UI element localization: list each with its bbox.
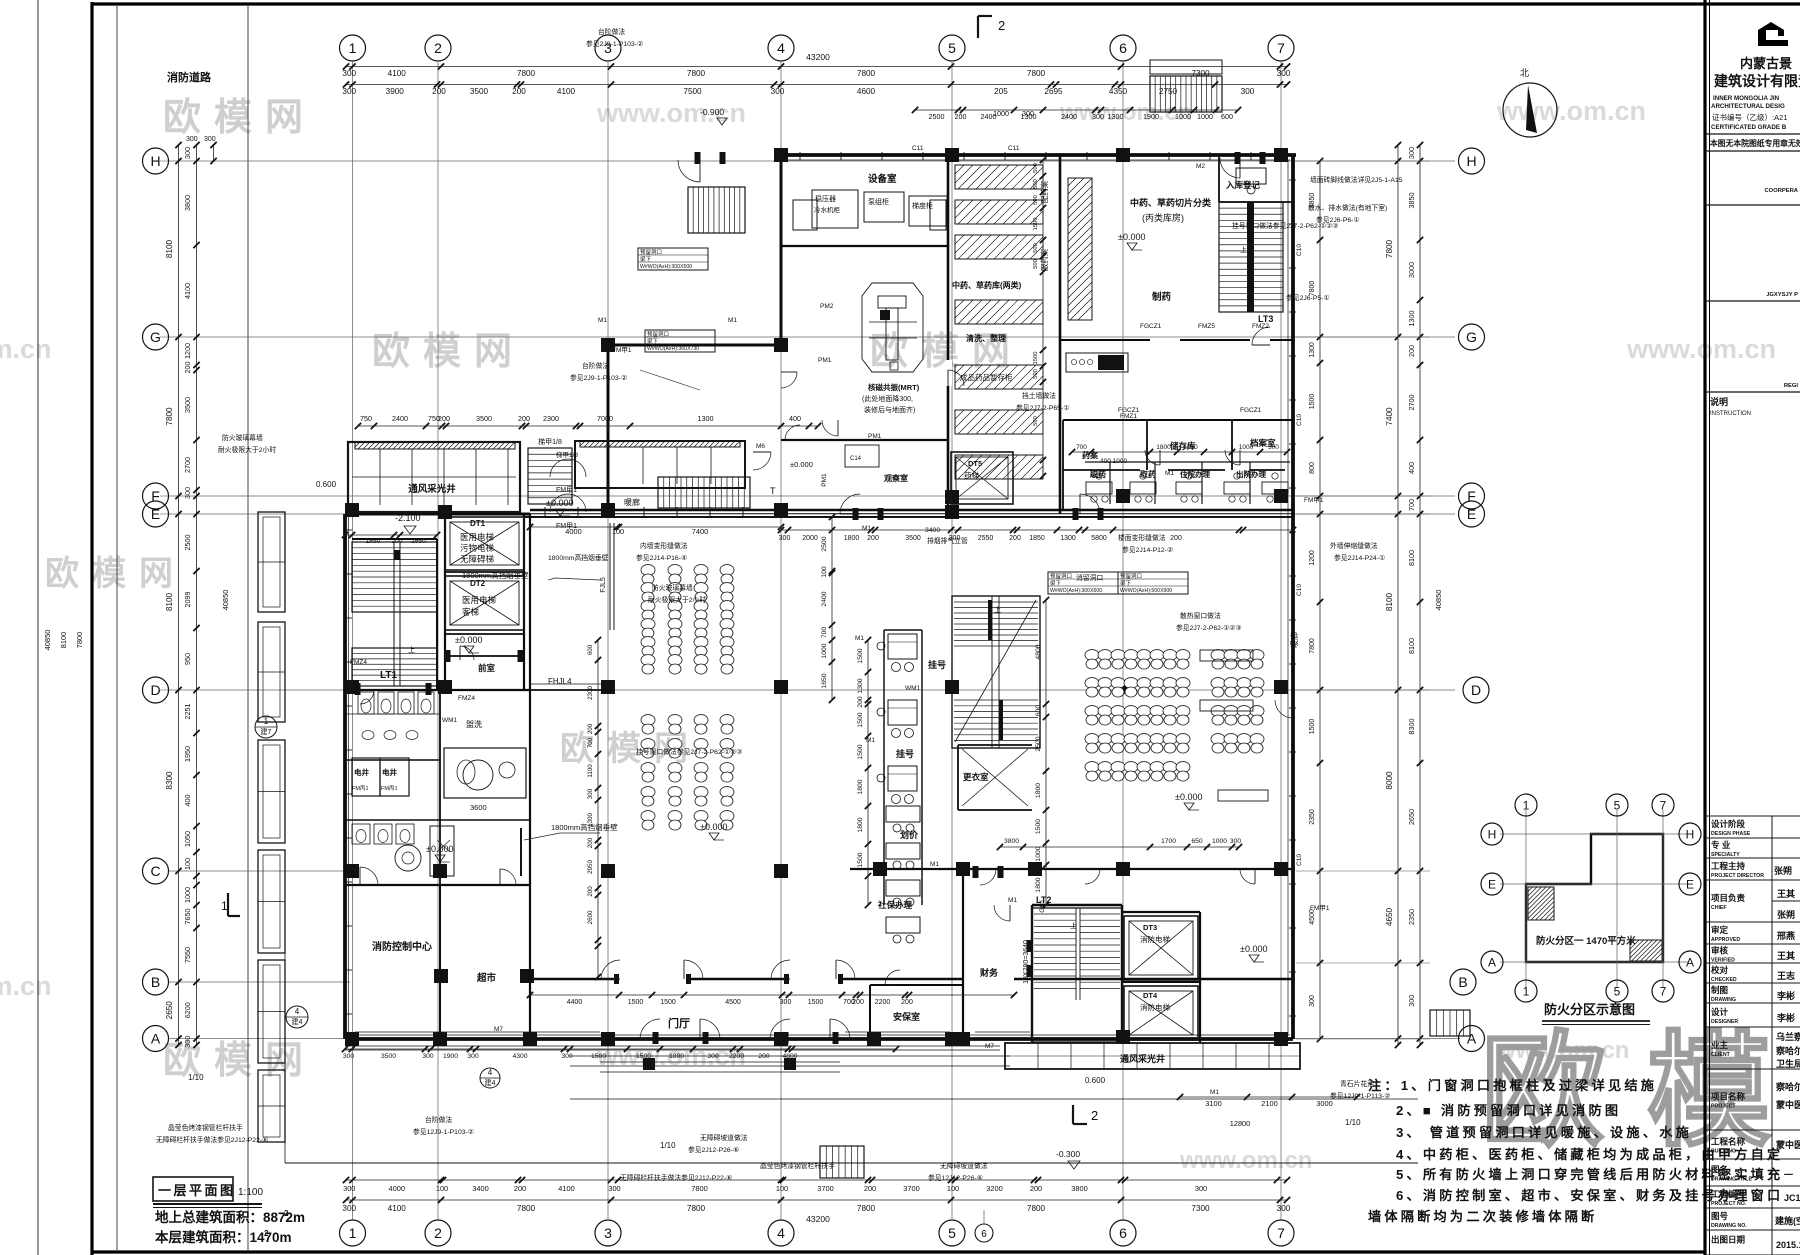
svg-text:3100: 3100 xyxy=(1205,1099,1221,1108)
svg-text:住院办理: 住院办理 xyxy=(1180,469,1210,479)
svg-text:300: 300 xyxy=(186,136,198,143)
svg-text:www.om.cn: www.om.cn xyxy=(1179,1147,1312,1174)
svg-text:6200: 6200 xyxy=(183,1002,192,1018)
svg-text:M1: M1 xyxy=(598,317,607,324)
svg-text:药案: 药案 xyxy=(1082,450,1099,460)
svg-text:2695: 2695 xyxy=(1044,87,1063,96)
svg-text:1300: 1300 xyxy=(1108,112,1124,121)
svg-text:冷水机柜: 冷水机柜 xyxy=(814,205,841,214)
svg-text:7000: 7000 xyxy=(597,414,613,423)
svg-text:1950: 1950 xyxy=(183,746,192,762)
svg-text:205: 205 xyxy=(994,87,1008,96)
svg-text:排烟排气立管: 排烟排气立管 xyxy=(927,536,968,545)
svg-text:700: 700 xyxy=(1407,499,1416,511)
svg-text:参见2J7-2-P65-①: 参见2J7-2-P65-① xyxy=(1016,403,1069,412)
svg-text:消防电梯: 消防电梯 xyxy=(1140,934,1170,944)
svg-text:4100: 4100 xyxy=(558,1184,574,1193)
svg-text:1500: 1500 xyxy=(1309,394,1316,410)
svg-text:300: 300 xyxy=(779,535,791,542)
svg-text:4300: 4300 xyxy=(512,1053,527,1060)
svg-text:1000: 1000 xyxy=(1197,112,1213,121)
svg-text:本层建筑面积：1470m: 本层建筑面积：1470m xyxy=(155,1229,292,1245)
svg-text:300: 300 xyxy=(422,1053,434,1060)
svg-text:工程主持: 工程主持 xyxy=(1711,861,1746,871)
svg-text:JGXYSJY P: JGXYSJY P xyxy=(1766,292,1798,298)
svg-text:挂号: 挂号 xyxy=(928,659,946,670)
svg-text:M6: M6 xyxy=(756,443,765,450)
svg-text:3800: 3800 xyxy=(183,195,192,211)
svg-text:FMZ4: FMZ4 xyxy=(458,695,475,702)
svg-text:张朔: 张朔 xyxy=(1774,865,1792,876)
svg-text:M1: M1 xyxy=(1245,470,1254,477)
svg-text:参见2J14-P12-②: 参见2J14-P12-② xyxy=(1122,545,1173,554)
svg-text:400: 400 xyxy=(183,795,192,807)
svg-text:7800: 7800 xyxy=(1027,1204,1046,1213)
svg-text:600: 600 xyxy=(1221,112,1233,121)
svg-text:蒙中医: 蒙中医 xyxy=(1776,1139,1800,1150)
svg-text:1500: 1500 xyxy=(857,712,864,727)
svg-text:1500: 1500 xyxy=(857,852,864,867)
svg-text:A: A xyxy=(1467,1031,1477,1047)
svg-text:300: 300 xyxy=(771,87,785,96)
svg-text:FMZ1: FMZ1 xyxy=(1120,413,1137,420)
svg-text:C10: C10 xyxy=(1296,584,1303,596)
svg-text:图号: 图号 xyxy=(1711,1211,1729,1221)
svg-text:证书编号（乙级）:A21: 证书编号（乙级）:A21 xyxy=(1712,112,1787,122)
svg-text:王志: 王志 xyxy=(1777,970,1795,981)
svg-text:1800: 1800 xyxy=(857,817,864,832)
svg-text:www.om.cn: www.om.cn xyxy=(1626,334,1776,364)
svg-text:4650: 4650 xyxy=(1385,907,1394,926)
svg-text:消防电梯: 消防电梯 xyxy=(1140,1002,1170,1012)
svg-text:DT3: DT3 xyxy=(1143,923,1157,932)
svg-text:±0.000: ±0.000 xyxy=(1118,232,1145,242)
svg-text:T: T xyxy=(770,486,776,496)
svg-text:5: 5 xyxy=(948,40,956,56)
svg-text:B: B xyxy=(151,974,160,990)
svg-text:40850: 40850 xyxy=(1434,590,1443,611)
svg-text:4500: 4500 xyxy=(725,999,741,1006)
svg-text:3700: 3700 xyxy=(903,1184,919,1193)
svg-text:PM1: PM1 xyxy=(868,433,882,440)
svg-text:挡土墙做法: 挡土墙做法 xyxy=(1022,391,1056,400)
svg-text:3800: 3800 xyxy=(1071,1184,1087,1193)
svg-text:医用电梯: 医用电梯 xyxy=(462,595,497,605)
svg-text:500: 500 xyxy=(1033,179,1039,189)
svg-text:6: 6 xyxy=(1119,1225,1127,1241)
svg-text:M1: M1 xyxy=(855,635,864,642)
svg-text:取药: 取药 xyxy=(1140,469,1156,479)
svg-text:300: 300 xyxy=(1277,1204,1291,1213)
svg-text:100: 100 xyxy=(183,858,192,870)
svg-text:3500: 3500 xyxy=(470,87,489,96)
svg-text:1650: 1650 xyxy=(366,538,381,545)
svg-text:(丙类库房): (丙类库房) xyxy=(1142,212,1184,223)
svg-text:500: 500 xyxy=(1033,195,1039,205)
svg-text:CERTIFICATED GRADE B: CERTIFICATED GRADE B xyxy=(1711,124,1787,131)
svg-text:100: 100 xyxy=(776,1184,788,1193)
svg-text:8100: 8100 xyxy=(1407,550,1416,566)
svg-text:300: 300 xyxy=(1022,109,1034,118)
svg-text:梁下: 梁下 xyxy=(640,255,652,263)
svg-text:3500: 3500 xyxy=(381,1053,396,1060)
svg-text:7800: 7800 xyxy=(517,69,536,78)
svg-text:(此处地面降300,: (此处地面降300, xyxy=(862,394,913,403)
svg-text:7800: 7800 xyxy=(75,632,84,649)
svg-text:VERIFIED: VERIFIED xyxy=(1711,958,1735,964)
svg-text:防火分区示意图: 防火分区示意图 xyxy=(1544,1002,1635,1017)
svg-text:FHJL4: FHJL4 xyxy=(548,677,572,686)
svg-text:H: H xyxy=(1686,827,1695,841)
svg-text:无障碍坡道做法: 无障碍坡道做法 xyxy=(940,1161,988,1170)
svg-text:-0.900: -0.900 xyxy=(700,107,724,117)
svg-text:BUILDING: BUILDING xyxy=(1711,1149,1736,1155)
svg-text:DT4: DT4 xyxy=(1143,991,1158,1000)
svg-text:欧模网: 欧模网 xyxy=(163,97,316,139)
svg-text:8100: 8100 xyxy=(59,632,68,649)
svg-text:1800mm高挡烟垂壁: 1800mm高挡烟垂壁 xyxy=(548,553,609,562)
svg-text:4100: 4100 xyxy=(388,1204,407,1213)
svg-text:2000: 2000 xyxy=(802,535,818,542)
svg-text:参见12J9-1-P103-②: 参见12J9-1-P103-② xyxy=(413,1127,474,1136)
svg-text:中药、草药切片分类: 中药、草药切片分类 xyxy=(1130,197,1212,208)
svg-text:4: 4 xyxy=(295,1007,300,1016)
svg-text:7400: 7400 xyxy=(1385,407,1394,426)
svg-text:观察室: 观察室 xyxy=(884,473,908,483)
svg-text:挂号窗口做法参见2J7-2-P62-①②③: 挂号窗口做法参见2J7-2-P62-①②③ xyxy=(636,747,742,756)
svg-text:7500: 7500 xyxy=(683,87,702,96)
svg-text:2099: 2099 xyxy=(183,592,192,608)
svg-text:REGI: REGI xyxy=(1784,383,1799,389)
svg-text:C10: C10 xyxy=(1296,414,1303,426)
svg-text:李彬: 李彬 xyxy=(1776,1012,1795,1023)
svg-text:4100: 4100 xyxy=(557,87,576,96)
svg-text:±0.000: ±0.000 xyxy=(1175,792,1202,802)
svg-text:C11: C11 xyxy=(912,145,924,152)
svg-text:FJL5: FJL5 xyxy=(600,577,607,593)
svg-text:1000: 1000 xyxy=(183,887,192,903)
svg-text:2400: 2400 xyxy=(821,591,828,606)
svg-text:清洗、整理: 清洗、整理 xyxy=(966,333,1006,343)
svg-text:700: 700 xyxy=(587,737,594,748)
svg-text:建4: 建4 xyxy=(485,1078,496,1087)
svg-text:中药、草药库(两类): 中药、草药库(两类) xyxy=(952,280,1022,290)
svg-text:预留洞口: 预留洞口 xyxy=(647,330,669,338)
svg-text:5: 5 xyxy=(1614,984,1621,998)
svg-text:7800: 7800 xyxy=(857,69,876,78)
svg-text:JC1: JC1 xyxy=(1784,1193,1800,1203)
svg-text:内墙变形缝做法: 内墙变形缝做法 xyxy=(640,541,688,550)
svg-text:1800mm高挡烟垂壁: 1800mm高挡烟垂壁 xyxy=(462,570,529,580)
svg-text:200: 200 xyxy=(1407,345,1416,357)
svg-text:1500: 1500 xyxy=(857,744,864,759)
svg-text:泵组柜: 泵组柜 xyxy=(868,197,889,206)
svg-text:2100: 2100 xyxy=(1261,1099,1277,1108)
svg-text:前室: 前室 xyxy=(478,663,496,673)
svg-text:1800: 1800 xyxy=(669,1053,684,1060)
svg-text:4100: 4100 xyxy=(183,283,192,299)
svg-text:1800: 1800 xyxy=(844,535,860,542)
svg-text:1500: 1500 xyxy=(1033,218,1039,231)
svg-text:晶莹色烤漆钢管栏杆扶手: 晶莹色烤漆钢管栏杆扶手 xyxy=(168,1123,243,1132)
svg-text:7: 7 xyxy=(1660,984,1667,998)
svg-text:1000: 1000 xyxy=(1035,846,1042,861)
svg-text:2750: 2750 xyxy=(1159,87,1178,96)
svg-text:核磁共振(MRT): 核磁共振(MRT) xyxy=(868,382,920,392)
svg-text:4000: 4000 xyxy=(389,1184,405,1193)
svg-text:5800: 5800 xyxy=(1091,535,1107,542)
svg-text:超市: 超市 xyxy=(476,972,497,984)
svg-text:INSTRUCTION: INSTRUCTION xyxy=(1710,411,1751,417)
svg-text:3500: 3500 xyxy=(183,397,192,413)
svg-text:1000: 1000 xyxy=(1212,838,1227,845)
svg-text:7800: 7800 xyxy=(691,1184,707,1193)
svg-text:7800: 7800 xyxy=(1309,281,1316,297)
svg-text:2350: 2350 xyxy=(1407,909,1416,925)
svg-text:项目负责: 项目负责 xyxy=(1711,893,1746,903)
svg-text:8300: 8300 xyxy=(1407,719,1416,735)
svg-text:A: A xyxy=(1488,955,1496,969)
svg-text:1: 1 xyxy=(221,899,228,913)
svg-text:上: 上 xyxy=(1240,245,1247,254)
svg-text:梯甲1/8: 梯甲1/8 xyxy=(538,437,562,446)
svg-text:建筑设计有限责: 建筑设计有限责 xyxy=(1714,73,1800,89)
svg-text:C11: C11 xyxy=(1008,145,1020,152)
svg-text:C10: C10 xyxy=(1296,244,1303,256)
svg-text:300: 300 xyxy=(342,1204,356,1213)
svg-text:3400: 3400 xyxy=(472,1184,488,1193)
svg-text:600: 600 xyxy=(587,644,594,655)
svg-text:3800: 3800 xyxy=(1004,838,1019,845)
svg-text:300: 300 xyxy=(1241,87,1255,96)
svg-text:李彬: 李彬 xyxy=(1776,990,1795,1001)
svg-text:装修后与地面齐): 装修后与地面齐) xyxy=(864,405,915,414)
svg-text:1650: 1650 xyxy=(821,673,828,688)
svg-text:300: 300 xyxy=(707,1053,719,1060)
svg-text:一: 一 xyxy=(1784,1170,1793,1180)
svg-text:1100: 1100 xyxy=(587,764,594,778)
svg-text:台阶做法: 台阶做法 xyxy=(582,361,609,370)
svg-text:200: 200 xyxy=(512,87,526,96)
svg-text:2015.12: 2015.12 xyxy=(1776,1240,1800,1250)
svg-text:400: 400 xyxy=(1407,462,1416,474)
svg-text:G: G xyxy=(1466,329,1477,345)
svg-text:FGCZ1: FGCZ1 xyxy=(1140,323,1162,330)
svg-text:1300: 1300 xyxy=(698,414,714,423)
svg-text:客梯: 客梯 xyxy=(462,607,480,617)
svg-text:1/10: 1/10 xyxy=(188,1073,204,1082)
svg-text:卫生局: 卫生局 xyxy=(1776,1058,1800,1069)
svg-text:2650: 2650 xyxy=(1407,809,1416,825)
svg-text:3700: 3700 xyxy=(817,1184,833,1193)
svg-text:乌兰察: 乌兰察 xyxy=(1776,1031,1800,1042)
svg-text:3200: 3200 xyxy=(986,1184,1002,1193)
svg-text:参见12J12-P26-⑥: 参见12J12-P26-⑥ xyxy=(928,1173,983,1182)
svg-text:建施(空: 建施(空 xyxy=(1775,1215,1800,1226)
svg-text:2600: 2600 xyxy=(587,910,594,924)
svg-text:2700: 2700 xyxy=(183,457,192,473)
svg-text:入库登记: 入库登记 xyxy=(1225,180,1261,190)
svg-text:蒙中医: 蒙中医 xyxy=(1776,1099,1800,1110)
svg-text:5: 5 xyxy=(948,1225,956,1241)
svg-text:成品药品暂存柜: 成品药品暂存柜 xyxy=(960,372,1013,382)
svg-text:防火玻璃幕墙: 防火玻璃幕墙 xyxy=(652,583,693,592)
svg-text:INNER MONGOLIA JIN: INNER MONGOLIA JIN xyxy=(1713,95,1780,102)
svg-text:0.600: 0.600 xyxy=(316,480,337,489)
svg-text:工程名称: 工程名称 xyxy=(1711,1137,1746,1147)
svg-text:7800: 7800 xyxy=(517,1204,536,1213)
svg-text:1500: 1500 xyxy=(808,999,824,1006)
svg-text:参见2J9-1-P103-②: 参见2J9-1-P103-② xyxy=(570,373,627,382)
svg-text:暖廊: 暖廊 xyxy=(1289,632,1299,648)
svg-text:7: 7 xyxy=(1660,798,1667,812)
svg-text:1:100: 1:100 xyxy=(238,1187,263,1198)
svg-text:2500: 2500 xyxy=(1035,736,1042,751)
svg-text:LT1: LT1 xyxy=(380,670,397,681)
svg-text:C: C xyxy=(150,863,160,879)
svg-text:DESIGNER: DESIGNER xyxy=(1711,1019,1738,1025)
svg-text:7800: 7800 xyxy=(1027,69,1046,78)
svg-text:王其: 王其 xyxy=(1777,950,1795,961)
svg-text:300: 300 xyxy=(342,87,356,96)
svg-text:300: 300 xyxy=(1230,838,1242,845)
svg-text:300: 300 xyxy=(608,1184,620,1193)
svg-text:7550: 7550 xyxy=(183,947,192,963)
svg-text:1050: 1050 xyxy=(183,831,192,847)
svg-text:300: 300 xyxy=(1309,995,1316,1007)
svg-text:1500: 1500 xyxy=(628,999,644,1006)
svg-text:消防道路: 消防道路 xyxy=(167,70,212,84)
svg-text:1500: 1500 xyxy=(660,999,676,1006)
svg-text:PM1: PM1 xyxy=(821,473,828,487)
svg-text:H: H xyxy=(1466,153,1476,169)
svg-text:8300: 8300 xyxy=(165,771,174,790)
svg-text:7300: 7300 xyxy=(1191,1204,1210,1213)
svg-text:无障碍梯: 无障碍梯 xyxy=(460,554,495,564)
svg-text:CHECKED: CHECKED xyxy=(1711,977,1737,983)
svg-text:400 1000: 400 1000 xyxy=(1100,458,1127,465)
svg-text:暖廊: 暖廊 xyxy=(624,497,640,507)
svg-text:2950: 2950 xyxy=(587,860,594,874)
svg-text:E: E xyxy=(1488,877,1496,891)
svg-text:梁下: 梁下 xyxy=(1120,579,1132,587)
svg-text:C10: C10 xyxy=(1296,854,1303,866)
svg-text:1850: 1850 xyxy=(1029,535,1045,542)
svg-text:楼面变形缝做法: 楼面变形缝做法 xyxy=(1118,533,1166,542)
svg-text:M7: M7 xyxy=(985,1043,994,1050)
svg-text:2: 2 xyxy=(434,40,442,56)
svg-text:200: 200 xyxy=(857,696,864,708)
svg-text:W#WO(AxH):500X900: W#WO(AxH):500X900 xyxy=(1120,588,1172,594)
svg-text:M1: M1 xyxy=(866,737,875,744)
svg-text:说明: 说明 xyxy=(1710,396,1728,407)
svg-text:E: E xyxy=(1686,877,1694,891)
svg-text:12800: 12800 xyxy=(1230,1119,1251,1128)
svg-text:1000: 1000 xyxy=(993,109,1009,118)
svg-text:1300: 1300 xyxy=(1407,311,1416,327)
svg-text:PM2: PM2 xyxy=(820,303,834,310)
svg-text:M1: M1 xyxy=(1210,1089,1219,1096)
svg-text:1900: 1900 xyxy=(443,1053,458,1060)
svg-text:FM甲1: FM甲1 xyxy=(556,486,577,494)
svg-text:300: 300 xyxy=(467,1053,479,1060)
svg-text:1300: 1300 xyxy=(1060,535,1076,542)
svg-text:参见2J14-P24-①: 参见2J14-P24-① xyxy=(1334,553,1385,562)
svg-text:7800: 7800 xyxy=(1309,638,1316,654)
svg-text:200: 200 xyxy=(432,87,446,96)
svg-text:7800: 7800 xyxy=(1385,239,1394,258)
svg-text:FM甲1: FM甲1 xyxy=(612,346,632,354)
svg-text:200: 200 xyxy=(392,538,403,545)
svg-text:4100: 4100 xyxy=(388,69,407,78)
svg-text:1800: 1800 xyxy=(1035,877,1042,892)
svg-text:4800: 4800 xyxy=(1035,644,1042,659)
svg-text:CHIEF: CHIEF xyxy=(1711,905,1727,911)
svg-text:邢燕: 邢燕 xyxy=(1777,930,1795,941)
svg-text:FMZ5: FMZ5 xyxy=(1198,323,1215,330)
svg-text:王其: 王其 xyxy=(1777,888,1795,899)
svg-text:通风采光井: 通风采光井 xyxy=(408,483,456,495)
svg-text:8100: 8100 xyxy=(1407,638,1416,654)
svg-text:2251: 2251 xyxy=(183,704,192,720)
svg-text:1300: 1300 xyxy=(1309,342,1316,358)
svg-text:WM1: WM1 xyxy=(905,685,921,692)
svg-text:建4: 建4 xyxy=(292,1017,303,1026)
svg-text:2500: 2500 xyxy=(183,535,192,551)
svg-text:1800: 1800 xyxy=(857,779,864,794)
svg-text:参见2J12-P26-⑥: 参见2J12-P26-⑥ xyxy=(688,1145,739,1154)
svg-text:张朔: 张朔 xyxy=(1777,909,1795,920)
svg-text:4600: 4600 xyxy=(857,87,876,96)
svg-text:5: 5 xyxy=(1614,798,1621,812)
svg-text:200: 200 xyxy=(758,1053,770,1060)
svg-text:1300: 1300 xyxy=(857,678,864,693)
svg-text:6: 6 xyxy=(981,1229,987,1240)
svg-text:6: 6 xyxy=(1119,40,1127,56)
svg-text:8000: 8000 xyxy=(1385,771,1394,790)
svg-text:4: 4 xyxy=(777,1225,785,1241)
svg-text:1200: 1200 xyxy=(183,343,192,359)
svg-text:100: 100 xyxy=(821,566,828,578)
svg-text:950: 950 xyxy=(183,653,192,665)
svg-text:-2.100: -2.100 xyxy=(395,513,421,523)
svg-text:1900: 1900 xyxy=(1143,112,1159,121)
svg-text:40850: 40850 xyxy=(43,630,52,651)
svg-text:43200: 43200 xyxy=(806,1214,830,1224)
svg-text:PROJECT NO.: PROJECT NO. xyxy=(1711,1201,1747,1207)
svg-text:电井: 电井 xyxy=(382,767,397,777)
svg-text:500: 500 xyxy=(1033,163,1039,173)
svg-text:±0.000: ±0.000 xyxy=(1240,944,1267,954)
svg-text:2: 2 xyxy=(284,1209,289,1218)
svg-text:设备室: 设备室 xyxy=(868,173,897,185)
svg-text:上: 上 xyxy=(408,645,415,654)
svg-text:1/10: 1/10 xyxy=(660,1141,676,1150)
svg-text:ARCHITECTURAL DESIG: ARCHITECTURAL DESIG xyxy=(1711,103,1785,110)
svg-text:察哈尔: 察哈尔 xyxy=(1776,1045,1800,1056)
svg-text:±0.000: ±0.000 xyxy=(700,822,727,832)
svg-text:300: 300 xyxy=(204,136,216,143)
svg-text:4: 4 xyxy=(777,40,785,56)
svg-text:社保办理: 社保办理 xyxy=(877,900,913,910)
svg-text:1700: 1700 xyxy=(1161,838,1176,845)
svg-text:预留洞口: 预留洞口 xyxy=(1120,572,1142,580)
svg-text:M2: M2 xyxy=(1196,163,1205,170)
svg-text:300: 300 xyxy=(1277,69,1291,78)
svg-text:2400: 2400 xyxy=(1061,112,1077,121)
svg-text:8100: 8100 xyxy=(165,239,174,258)
svg-text:2550: 2550 xyxy=(978,535,994,542)
